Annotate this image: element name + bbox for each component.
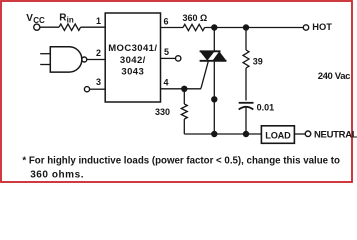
wire pin 4 — [161, 88, 202, 90]
svg-text:360 ohms.: 360 ohms. — [30, 170, 84, 181]
resistor 39 — [243, 28, 249, 101]
wire pin 5 stub — [161, 57, 176, 59]
wire NAND output to pin 2 — [87, 59, 105, 61]
svg-text:MOC3041/: MOC3041/ — [108, 43, 157, 54]
wire triac gate diagonal — [201, 61, 209, 89]
triac Q1 — [200, 28, 227, 135]
gate U2 NAND — [50, 47, 87, 72]
label Rin — [59, 13, 74, 25]
junction dot triac top — [211, 24, 217, 30]
svg-text:4: 4 — [164, 78, 169, 88]
node pin 5 open terminal — [176, 56, 181, 61]
resistor 360 ohm — [183, 24, 205, 30]
IC U1 MOC3041/3042/3043 — [105, 13, 160, 102]
node VCC terminal — [34, 24, 40, 30]
svg-text:39: 39 — [253, 57, 263, 67]
wire pin 6 to 360 ohm — [161, 27, 184, 29]
wire bottom rail — [184, 133, 261, 135]
svg-text:NEUTRAL: NEUTRAL — [314, 129, 357, 140]
wire NAND input B — [40, 64, 50, 66]
junction dot rail triac — [211, 131, 217, 137]
svg-text:LOAD: LOAD — [265, 130, 291, 140]
svg-text:360 Ω: 360 Ω — [183, 13, 208, 23]
svg-text:in: in — [67, 16, 74, 25]
resistor 330 — [181, 89, 187, 134]
junction dot snubber top — [243, 24, 249, 30]
resistor Rin — [59, 24, 81, 30]
svg-text:3042/: 3042/ — [120, 55, 146, 66]
svg-text:* For highly inductive loads (: * For highly inductive loads (power fact… — [22, 156, 340, 167]
wire Rin to pin 1 — [81, 26, 106, 28]
wire NAND input A — [40, 53, 50, 55]
svg-text:2: 2 — [96, 48, 101, 58]
svg-text:3043: 3043 — [121, 67, 144, 78]
load LOAD box — [261, 126, 294, 144]
svg-text:HOT: HOT — [312, 22, 332, 32]
wire 360 ohm to HOT — [205, 27, 304, 29]
node pin 3 open terminal — [84, 87, 89, 92]
junction dot rail snubber — [243, 131, 249, 137]
label VCC — [26, 13, 45, 25]
node NEUTRAL terminal — [305, 131, 311, 137]
svg-text:330: 330 — [155, 107, 170, 117]
node HOT terminal — [303, 25, 308, 30]
junction dot pin 4 node — [181, 86, 187, 92]
svg-text:240 Vac: 240 Vac — [318, 71, 350, 82]
svg-text:1: 1 — [96, 16, 101, 26]
wire VCC to Rin — [40, 26, 59, 28]
wire LOAD to NEUTRAL — [294, 133, 305, 135]
wire pin 3 — [90, 88, 106, 90]
capacitor 0.01 — [239, 103, 254, 134]
junction dot triac MT1 — [211, 96, 217, 102]
svg-text:0.01: 0.01 — [257, 103, 275, 113]
svg-text:3: 3 — [96, 77, 101, 87]
svg-text:CC: CC — [33, 16, 45, 25]
svg-text:6: 6 — [164, 17, 169, 27]
svg-text:5: 5 — [164, 47, 169, 57]
